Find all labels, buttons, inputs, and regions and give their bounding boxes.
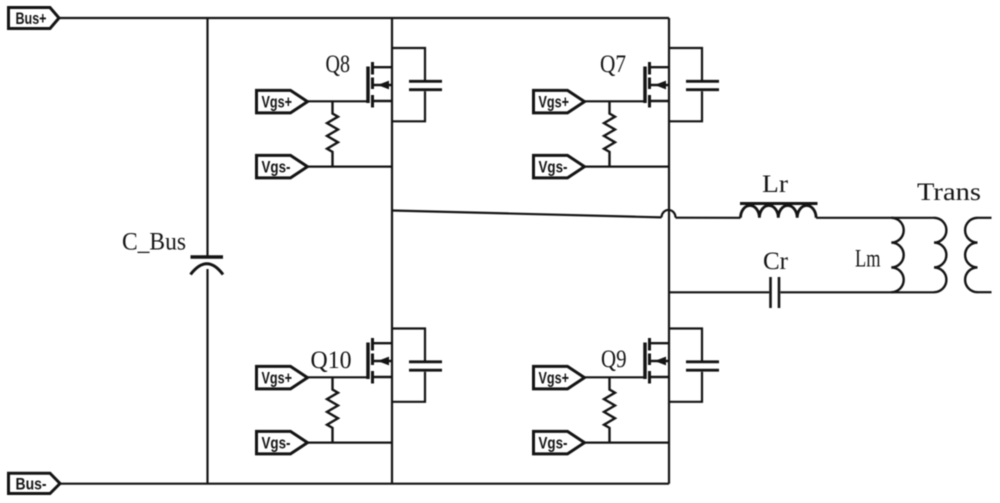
svg-text:Trans: Trans xyxy=(917,179,981,206)
capacitor Cr xyxy=(771,277,780,308)
svg-text:Lm: Lm xyxy=(855,246,881,273)
wire gate (Q8) xyxy=(308,100,369,102)
resistor gate-source (Q7) xyxy=(604,101,615,166)
resistor gate-source (Q9) xyxy=(604,377,615,442)
transformer primary winding xyxy=(934,218,946,292)
svg-text:Vgs+: Vgs+ xyxy=(539,92,570,111)
wire left bridge leg xyxy=(391,18,393,484)
wire hop over right leg xyxy=(662,210,676,218)
resistor gate-source (Q10) xyxy=(327,377,338,442)
wire source return (Q9) xyxy=(585,442,670,444)
capacitor snubber (Q10) xyxy=(409,362,442,370)
svg-text:Q8: Q8 xyxy=(326,51,351,78)
wire top rail DC bus+ xyxy=(59,17,669,19)
port flag Vgs- (Q8) xyxy=(257,155,308,178)
wire snubber branch (Q7) xyxy=(669,48,702,121)
wire secondary bottom stub xyxy=(978,291,992,293)
svg-text:Q10: Q10 xyxy=(311,347,352,374)
wire gate (Q10) xyxy=(308,376,369,378)
svg-text:Q7: Q7 xyxy=(600,51,626,78)
wire snubber branch (Q9) xyxy=(669,329,702,402)
wire C_Bus leg lower xyxy=(206,269,208,484)
port flag Vgs- (Q10) xyxy=(257,431,308,454)
svg-text:Vgs+: Vgs+ xyxy=(262,368,293,387)
wire snubber branch (Q10) xyxy=(392,329,425,402)
capacitor snubber (Q8) xyxy=(409,81,442,89)
transistor Q8 (N-MOSFET) xyxy=(368,62,392,108)
capacitor C_Bus xyxy=(191,257,224,275)
port flag Vgs+ (Q10) xyxy=(257,366,308,389)
transistor Q9 (N-MOSFET) xyxy=(645,338,669,384)
wire source return (Q10) xyxy=(308,442,393,444)
transistor Q10 (N-MOSFET) xyxy=(368,338,392,384)
svg-text:C_Bus: C_Bus xyxy=(122,229,186,256)
svg-text:Vgs-: Vgs- xyxy=(262,157,291,176)
wire secondary top stub xyxy=(978,217,992,219)
wire gate (Q7) xyxy=(585,100,646,102)
svg-text:Lr: Lr xyxy=(762,171,789,198)
port flag Vgs+ (Q9) xyxy=(534,366,585,389)
svg-text:Bus+: Bus+ xyxy=(16,9,47,28)
resistor gate-source (Q8) xyxy=(327,101,338,166)
transformer secondary winding xyxy=(965,218,977,292)
port flag Bus+ xyxy=(9,8,60,29)
port flag Vgs+ (Q7) xyxy=(534,90,585,113)
capacitor snubber (Q7) xyxy=(686,81,719,89)
port flag Vgs+ (Q8) xyxy=(257,90,308,113)
wire bottom rail DC bus- xyxy=(60,483,669,485)
svg-text:Q9: Q9 xyxy=(601,346,627,373)
inductor Lm (magnetizing) xyxy=(891,218,903,292)
wire snubber branch (Q8) xyxy=(392,48,425,121)
wire source return (Q7) xyxy=(585,166,670,168)
transistor Q7 (N-MOSFET) xyxy=(645,62,669,108)
wire right leg midpoint to Cr xyxy=(669,291,769,293)
wire Cr to transformer primary bottom xyxy=(780,291,934,293)
port flag Vgs- (Q7) xyxy=(534,155,585,178)
wire Lr to transformer primary top xyxy=(816,217,934,219)
svg-text:Vgs-: Vgs- xyxy=(262,433,291,452)
wire gate (Q9) xyxy=(585,376,646,378)
svg-text:Vgs+: Vgs+ xyxy=(262,92,293,111)
svg-text:Vgs-: Vgs- xyxy=(539,157,568,176)
wire right bridge leg xyxy=(668,18,670,484)
wire source return (Q8) xyxy=(308,166,393,168)
wire hop to Lr xyxy=(676,217,741,219)
port flag Bus- xyxy=(9,473,61,494)
svg-text:Bus-: Bus- xyxy=(16,475,47,494)
port flag Vgs- (Q9) xyxy=(534,431,585,454)
svg-text:Cr: Cr xyxy=(763,248,789,275)
inductor Lr xyxy=(740,204,818,218)
svg-text:Vgs-: Vgs- xyxy=(539,433,568,452)
wire C_Bus leg upper xyxy=(206,18,208,256)
svg-text:Vgs+: Vgs+ xyxy=(539,368,570,387)
capacitor snubber (Q9) xyxy=(686,362,719,370)
wire bridge midpoint A to tank (slanted) xyxy=(392,211,662,218)
